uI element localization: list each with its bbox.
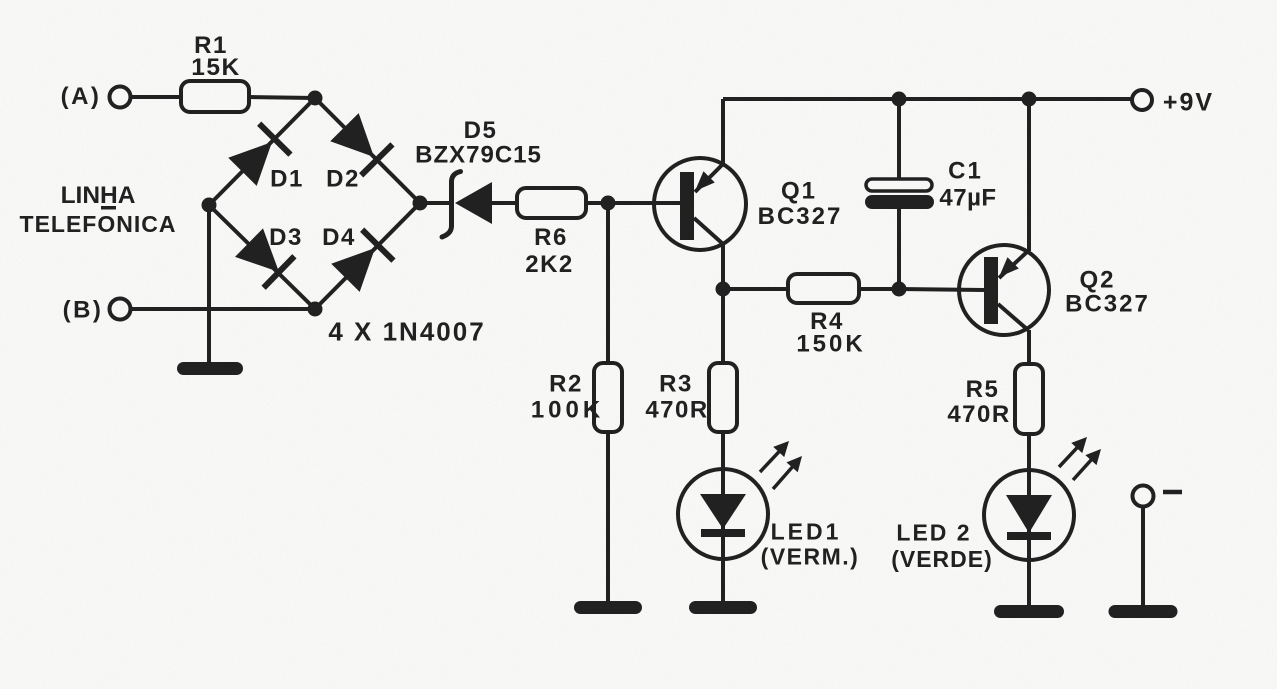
terminal (A) — [61, 83, 131, 110]
wire (A) to R1 — [131, 95, 181, 99]
resistor R2 100K — [531, 363, 622, 432]
diode D1 — [227, 124, 304, 193]
wire R1 to bridge top node — [249, 97, 315, 98]
ground under LED2 — [994, 605, 1064, 618]
svg-text:D1: D1 — [270, 166, 304, 193]
ground under LED1 — [689, 601, 757, 614]
wire bridge left node to ground — [207, 205, 211, 362]
svg-text:470R: 470R — [947, 401, 1010, 428]
node bridge right — [413, 196, 428, 211]
svg-text:LED 2: LED 2 — [896, 519, 971, 545]
wire bridge arm bottom-right — [315, 203, 420, 309]
wire node A down to R2 — [606, 203, 610, 363]
wire R6 to node A — [586, 201, 608, 205]
svg-text:(VERM.): (VERM.) — [761, 543, 860, 569]
svg-text:BC327: BC327 — [1065, 291, 1150, 318]
svg-text:15K: 15K — [191, 54, 240, 81]
label 4 X 1N4007 — [328, 316, 485, 346]
svg-text:R2: R2 — [549, 371, 583, 398]
terminal minus — [1133, 486, 1183, 607]
ground under R2 — [574, 601, 642, 614]
wire Q2 collector to R5 — [1027, 330, 1031, 364]
svg-text:2K2: 2K2 — [525, 251, 574, 278]
wire +9V rail — [723, 97, 1132, 101]
svg-text:100K: 100K — [531, 397, 604, 424]
svg-text:BZX79C15: BZX79C15 — [415, 142, 542, 169]
ground line input — [177, 362, 243, 375]
node rail/Q2 emitter junction — [1022, 92, 1037, 107]
svg-text:C1: C1 — [948, 158, 983, 185]
wire Q1 emitter to rail — [721, 99, 725, 164]
svg-text:D4: D4 — [322, 224, 356, 251]
svg-text:Q2: Q2 — [1079, 267, 1115, 294]
svg-text:(B): (B) — [63, 297, 104, 324]
resistor R1 15K — [181, 32, 249, 112]
wire bridge arm left-bottom — [209, 205, 315, 309]
svg-text:R6: R6 — [534, 224, 568, 251]
node C C1/R4/Q2 base junction — [892, 282, 907, 297]
wire Q1 collector down — [721, 244, 725, 289]
svg-text:47µF: 47µF — [939, 185, 996, 212]
wire Q2 emitter up to rail — [1027, 99, 1031, 251]
svg-text:150K: 150K — [796, 331, 865, 358]
diode D3 — [234, 224, 303, 288]
label LINHA TELEFONICA — [20, 182, 177, 237]
svg-text:Q1: Q1 — [781, 178, 817, 205]
terminal (B) — [63, 297, 131, 324]
svg-text:+9V: +9V — [1163, 89, 1214, 117]
diode D2 — [326, 112, 392, 193]
resistor R5 470R — [947, 364, 1043, 434]
transistor Q1 BC327 — [654, 158, 842, 250]
node bridge top — [308, 91, 323, 106]
svg-text:(A): (A) — [61, 83, 102, 110]
svg-text:D3: D3 — [269, 224, 303, 251]
node A R6/R2/Q1 base junction — [601, 196, 616, 211]
node rail/C1 junction — [892, 92, 907, 107]
wire bridge arm top-right — [315, 98, 420, 203]
svg-text:TELEFONICA: TELEFONICA — [20, 211, 177, 237]
resistor R4 150K — [788, 274, 866, 358]
zener diode D5 BZX79C15 — [415, 117, 542, 237]
svg-text:R3: R3 — [659, 371, 693, 398]
svg-text:R5: R5 — [966, 376, 1000, 403]
LED LED1 (VERM.) — [678, 432, 859, 601]
wire R4 to node C — [859, 287, 899, 291]
ground under minus terminal — [1109, 605, 1178, 618]
terminal +9V — [1132, 89, 1214, 117]
svg-text:(VERDE): (VERDE) — [891, 546, 993, 572]
resistor R3 470R — [645, 363, 737, 432]
svg-text:LED1: LED1 — [771, 518, 842, 544]
LED LED2 (VERDE) — [891, 432, 1106, 605]
wire node A to Q1 base — [608, 201, 680, 205]
wire R2 to ground — [606, 432, 610, 602]
wire (B) to bridge bottom node — [131, 307, 315, 311]
node B Q1 collector/R4/R3 junction — [716, 282, 731, 297]
wire node C to Q2 base — [899, 289, 984, 290]
svg-text:D5: D5 — [464, 117, 498, 144]
wire node B down to R3 — [721, 289, 725, 363]
svg-text:D2: D2 — [326, 166, 360, 193]
diode D4 — [322, 224, 393, 293]
transistor Q2 BC327 — [959, 245, 1150, 335]
svg-text:LINHA: LINHA — [61, 182, 136, 209]
svg-text:BC327: BC327 — [758, 203, 843, 230]
capacitor C1 47uF — [865, 99, 997, 289]
svg-text:4 X 1N4007: 4 X 1N4007 — [328, 316, 485, 346]
wire bridge arm left-top — [209, 98, 315, 205]
wire node B to R4 — [723, 287, 788, 291]
node bridge left — [202, 198, 217, 213]
svg-text:470R: 470R — [645, 397, 708, 424]
node bridge bottom — [308, 302, 323, 317]
resistor R6 2K2 — [517, 188, 586, 278]
